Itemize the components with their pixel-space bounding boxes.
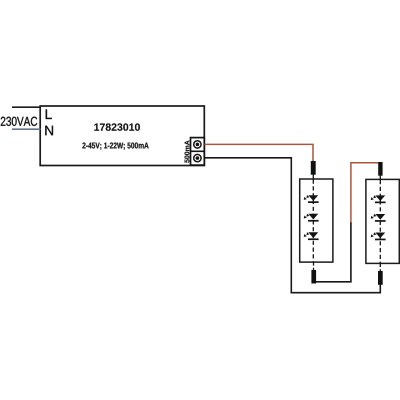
ratings 2-45V; 1-22W; 500mA <box>82 143 148 150</box>
mains label 230VAC <box>1 117 37 126</box>
LM2 internal dashed line <box>379 180 381 263</box>
LM2 LED D6 <box>371 232 386 240</box>
label N <box>45 126 53 136</box>
output label 500mA <box>185 141 190 163</box>
wire module1 to module2 orange segment <box>351 163 379 223</box>
LM1 box to bottom pin dashed link <box>313 262 315 271</box>
LM1 pin to box link <box>312 175 314 180</box>
wire LED+ orange from driver to module 1 <box>204 144 313 161</box>
LM2 bottom pin <box>378 271 383 285</box>
part number 17823010 <box>94 123 140 130</box>
LM1 bottom pin <box>311 270 316 284</box>
LM1 top pin <box>311 161 316 175</box>
label L <box>46 110 52 120</box>
LM2 pin to box link <box>379 176 381 181</box>
driver U1 box <box>40 106 204 166</box>
wire module1 to module2 black segment <box>315 222 351 282</box>
LM1 LED D2 <box>304 214 319 222</box>
wire LED- black return from driver to module 2 <box>204 158 380 293</box>
LED module LM2 box <box>366 179 399 263</box>
terminal + ring top <box>194 141 201 148</box>
LM1 LED D1 <box>304 195 319 203</box>
wire L mains <box>12 106 41 108</box>
terminal - ring bottom <box>194 154 201 161</box>
output terminal block <box>191 138 205 166</box>
LM2 LED D5 <box>371 214 386 222</box>
wire N mains (blue) <box>12 128 41 130</box>
LM1 LED D3 <box>304 232 319 240</box>
LM2 LED D4 <box>371 195 386 203</box>
LM1 internal dashed line <box>312 180 314 263</box>
LM2 top pin <box>378 162 382 176</box>
LM2 box to bottom pin dashed link <box>379 263 381 271</box>
LED module LM1 box <box>300 179 333 262</box>
